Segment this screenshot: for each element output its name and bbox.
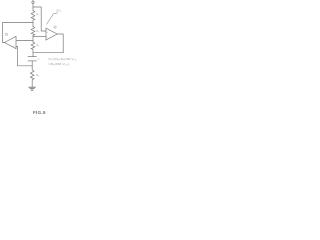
svg-text:FIG.5: FIG.5 xyxy=(33,110,46,115)
svg-text:R1: R1 xyxy=(36,12,39,17)
svg-text:R2: R2 xyxy=(36,29,39,34)
svg-text:201: 201 xyxy=(56,8,61,12)
svg-text:C: C xyxy=(38,57,40,61)
svg-text:=R₃/ΣR·V₀₀): =R₃/ΣR·V₀₀) xyxy=(48,62,69,66)
svg-text:R4: R4 xyxy=(36,73,39,78)
svg-text:(V₁=(R₂+R₃)/ΣR·V₀₀,: (V₁=(R₂+R₃)/ΣR·V₀₀, xyxy=(48,57,77,61)
svg-text:R3: R3 xyxy=(36,43,39,48)
